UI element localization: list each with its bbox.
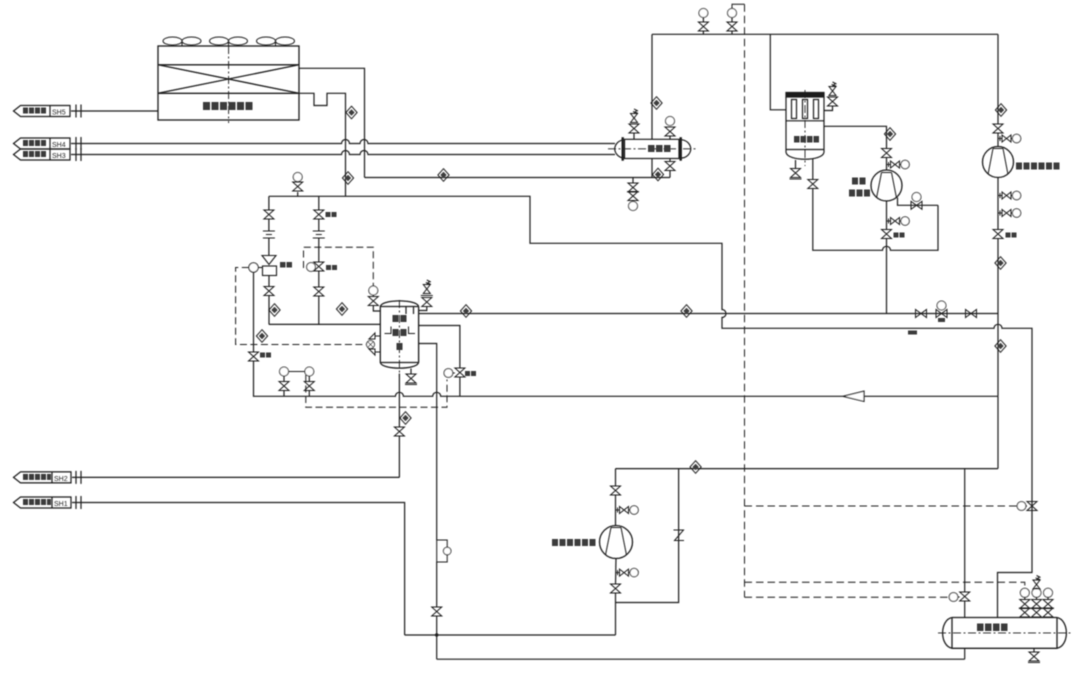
oil separator safety vent xyxy=(824,106,833,111)
connector flag SH2 (unit suction) xyxy=(14,472,72,483)
heat exchanger shell xyxy=(615,137,691,161)
LP compressor label xyxy=(552,539,596,546)
wire top header xyxy=(652,33,998,35)
flanges xyxy=(263,231,275,238)
liquid drain outlet down to receiver line xyxy=(419,344,437,541)
diamond tag xyxy=(995,340,1006,353)
valve xyxy=(966,310,977,318)
connector flag SH3 (water out) xyxy=(14,149,71,160)
wire oil separator outlet to parallel compressor xyxy=(824,126,887,148)
drain gauge below line xyxy=(632,178,634,184)
wire from hot-gas top header down to hx xyxy=(651,34,653,139)
svg-text:SH3: SH3 xyxy=(52,153,66,160)
dashed D3 signal xyxy=(745,596,949,598)
node stack1 drop xyxy=(268,196,270,210)
wire condenser top outlet to east then down xyxy=(299,68,365,177)
separator vessel xyxy=(380,301,418,368)
branch gauge xyxy=(887,160,910,168)
parallel compressor xyxy=(871,170,902,201)
gauge stack on header xyxy=(699,9,708,18)
dashed instrument box xyxy=(304,247,374,285)
valve with gauge xyxy=(936,310,947,318)
diamond tag xyxy=(342,172,353,185)
connector flag SH05 (condenser water in) xyxy=(14,106,71,117)
diamond tag xyxy=(995,104,1006,117)
wire long line with arrow to east xyxy=(254,361,999,396)
diamond tag xyxy=(346,106,357,119)
wire header staircase to east xyxy=(269,196,1032,617)
instrument pair on pilot line xyxy=(280,367,289,376)
solenoid circle + valve into separator top xyxy=(369,286,378,295)
oil pot on drain line xyxy=(437,540,448,562)
internal bracket left xyxy=(385,327,392,334)
evaporative condenser shell xyxy=(158,46,299,120)
wire bottom header to LP compressor xyxy=(405,634,616,636)
wire unit suction line xyxy=(72,476,399,478)
suction riser to unit-suction flag line xyxy=(398,374,400,428)
diamond tag xyxy=(460,305,471,318)
diamond tag xyxy=(256,330,267,343)
condenser fans xyxy=(163,37,295,46)
condenser label xyxy=(203,102,253,110)
hx safety vent stub xyxy=(633,133,635,139)
valve on hx bottom right stub xyxy=(669,159,671,162)
valve xyxy=(611,584,621,593)
receiver drain valve xyxy=(1033,648,1035,652)
oil return with valve down to loop line xyxy=(812,159,814,180)
oil separator drain valve xyxy=(795,160,797,169)
branch gauge xyxy=(998,209,1021,217)
label xyxy=(326,212,337,217)
wire header corner down to HP compressor xyxy=(997,34,999,124)
valve xyxy=(264,210,274,219)
LP discharge down xyxy=(615,559,618,585)
LP compressor xyxy=(600,526,633,559)
label xyxy=(260,353,271,358)
wire header to oil separator xyxy=(770,34,786,110)
suction column down xyxy=(997,178,999,230)
compressor suction down xyxy=(886,201,888,215)
wire condensate line from condenser to hx bottom xyxy=(365,177,671,179)
valve xyxy=(432,607,442,616)
valve xyxy=(264,287,274,296)
internal bracket right xyxy=(409,327,416,334)
label xyxy=(326,265,337,270)
HP compressor label xyxy=(1016,163,1060,170)
branch gauge xyxy=(998,134,1021,142)
label xyxy=(465,371,476,376)
valve with gauge on x1032 drop xyxy=(1027,502,1037,511)
diamond tag xyxy=(681,305,692,318)
separator centerline xyxy=(398,300,400,377)
valve xyxy=(394,427,404,436)
branch gauge xyxy=(887,217,910,225)
diamond tag xyxy=(995,257,1006,270)
svg-text:SH1: SH1 xyxy=(54,501,68,508)
dashed signal from control valve pilot to level gauge xyxy=(236,268,366,345)
gauge + valve on receiver inlet xyxy=(949,593,958,602)
oil separator label xyxy=(794,136,819,143)
valve xyxy=(611,486,621,495)
receiver label xyxy=(977,624,1008,632)
valve xyxy=(916,310,927,318)
pilot line from control valve down xyxy=(253,272,255,352)
flanges xyxy=(313,231,325,238)
break ticks xyxy=(76,105,81,118)
valve xyxy=(314,287,324,296)
diamond tag xyxy=(400,412,411,425)
oil separator vessel xyxy=(786,93,824,160)
diamond tag xyxy=(884,128,895,141)
receiver centerline xyxy=(938,632,1071,634)
flow arrow xyxy=(843,391,864,401)
connector flag SH4 (water return) xyxy=(14,138,71,149)
gauge stack on header with signal tap xyxy=(728,9,737,18)
branch gauge xyxy=(616,568,639,576)
level gauge cluster on left wall xyxy=(367,333,381,355)
side outlet to solenoid feed valve xyxy=(419,326,460,369)
diamond tag xyxy=(438,169,449,182)
condenser centerline xyxy=(228,46,230,123)
valve xyxy=(249,352,259,361)
hx centerline xyxy=(608,148,697,150)
gauge stub on header xyxy=(297,192,299,196)
hx label xyxy=(648,145,671,152)
wire water line to heat exchanger (with jumps at x345.5, x364) xyxy=(71,140,615,144)
label xyxy=(894,233,905,238)
diamond tag xyxy=(269,304,280,317)
valve xyxy=(882,230,892,239)
dashed instrument trunk xyxy=(744,4,746,597)
wire liquid header between LP comp and HP column xyxy=(616,468,999,470)
receiver instrument stack 2 xyxy=(1032,588,1041,597)
wire unit liquid line down to bottom header xyxy=(72,503,405,636)
receiver inlet drop xyxy=(964,469,966,592)
dashed signal to solenoid xyxy=(306,375,447,407)
HP compressor xyxy=(983,147,1014,178)
wire suction line separator to HP compressor xyxy=(419,313,998,315)
control valve (main regulator) xyxy=(249,256,277,276)
internal inlet tube xyxy=(406,307,414,315)
receiver instrument stack 3 xyxy=(1044,588,1053,597)
wire lower water line xyxy=(71,151,615,155)
labels SW / 204 xyxy=(908,318,945,335)
label xyxy=(1006,233,1017,238)
safety vent stack on top-right xyxy=(419,307,427,311)
label (main valve) xyxy=(280,262,292,268)
bypass loop with capillary Z xyxy=(616,469,679,603)
wire bottom return line to receiver xyxy=(437,658,965,660)
hx gauge stub top right xyxy=(669,136,671,139)
node stack2 drop xyxy=(318,196,320,210)
junction dot xyxy=(435,633,438,636)
diamond tag xyxy=(652,168,663,181)
compressor discharge loop with check valve xyxy=(898,198,939,206)
valve xyxy=(882,149,892,158)
svg-text:SH2: SH2 xyxy=(54,476,68,483)
parallel compressor label xyxy=(849,178,870,197)
dashed D1 signal xyxy=(745,505,1018,507)
wire condenser inlet notch line down to header xyxy=(299,93,346,196)
receiver vessel xyxy=(943,618,1067,649)
oil separator centerline xyxy=(804,90,806,166)
svg-text:SH4: SH4 xyxy=(52,142,66,149)
branch gauge xyxy=(616,506,639,514)
hand expansion valve with pilot circle xyxy=(314,262,324,271)
valve xyxy=(993,230,1003,239)
dashed D2 signal xyxy=(745,582,1025,588)
svg-text:SH5: SH5 xyxy=(52,110,66,117)
wire condenser water line xyxy=(71,110,158,112)
connector flag SH1 (unit liquid) xyxy=(14,497,72,508)
branch gauge xyxy=(998,191,1021,199)
valve xyxy=(314,210,324,219)
LP suction drop xyxy=(615,469,617,486)
wire liquid feed line to separator xyxy=(269,323,380,325)
receiver instrument stack 1 xyxy=(1020,588,1029,597)
drain valve bottom right xyxy=(410,369,412,375)
receiver bottom outlet xyxy=(964,648,966,659)
diamond tag xyxy=(690,461,701,474)
valve xyxy=(993,124,1003,133)
solenoid valve with coil circle xyxy=(455,368,465,377)
diamond tag xyxy=(651,97,662,110)
wire HP discharge down to receiver header xyxy=(997,396,999,468)
diamond tag xyxy=(336,303,347,316)
separator label xyxy=(393,315,407,350)
